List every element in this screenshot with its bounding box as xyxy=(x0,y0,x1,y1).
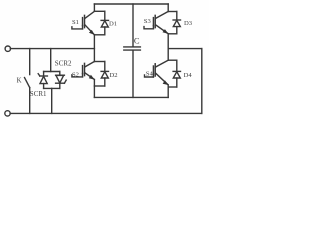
wire D4 anode jog xyxy=(168,86,177,88)
svg-text:S3: S3 xyxy=(144,18,152,25)
diode D4 xyxy=(173,60,180,87)
transistor S3 (IGBT top-right) xyxy=(144,12,168,34)
wire S1 collector jog xyxy=(94,10,104,12)
wire SCR branch input xyxy=(50,49,52,72)
wire SCR bottom bus xyxy=(44,87,60,89)
wire SCR top bus xyxy=(44,71,60,73)
wire right output horizontal xyxy=(168,48,202,50)
wire bridge bottom rail xyxy=(94,96,168,98)
transistor S4 (IGBT bottom-right) xyxy=(145,60,169,85)
wire top input bus xyxy=(10,48,94,50)
diode D1 xyxy=(101,11,108,35)
wire S3 collector jog xyxy=(168,11,177,13)
thyristor SCR2 (right, cathode down) xyxy=(56,72,67,89)
diode D2 xyxy=(101,62,108,87)
svg-text:S1: S1 xyxy=(72,19,79,26)
wire S4 collector jog xyxy=(168,59,177,61)
svg-text:D4: D4 xyxy=(184,72,193,79)
terminal J2 (bottom-left input) xyxy=(5,111,10,116)
wire SCR branch output xyxy=(51,88,53,113)
diode D3 xyxy=(173,12,180,34)
svg-text:D1: D1 xyxy=(109,21,117,28)
wire bridge top rail xyxy=(94,3,168,5)
capacitor C xyxy=(124,4,141,97)
node: left leg vertical segments xyxy=(93,4,95,11)
svg-text:C: C xyxy=(134,36,140,46)
transistor S1 (IGBT top-left) xyxy=(72,11,95,35)
svg-text:K: K xyxy=(17,78,22,85)
svg-text:S4: S4 xyxy=(146,71,154,78)
wire D1 anode jog xyxy=(94,34,104,36)
node: right leg vertical segments xyxy=(167,4,169,12)
svg-text:D3: D3 xyxy=(184,20,193,27)
svg-text:S2: S2 xyxy=(72,72,79,79)
transistor S2 (IGBT bottom-left) xyxy=(72,62,95,80)
switch K blade xyxy=(25,78,30,88)
wire bottom return bus xyxy=(10,112,202,114)
svg-text:SCR2: SCR2 xyxy=(55,59,72,67)
wire S2 collector jog xyxy=(94,61,104,63)
wire right output vertical xyxy=(201,49,203,114)
svg-text:SCR1: SCR1 xyxy=(30,90,47,98)
terminal J1 (top-left input) xyxy=(5,46,10,51)
wire D2 anode jog xyxy=(94,85,104,87)
wire switch K bottom lead xyxy=(29,88,31,114)
svg-text:D2: D2 xyxy=(110,72,118,79)
thyristor SCR1 (left, cathode up) xyxy=(38,72,47,89)
wire switch K top lead xyxy=(29,49,31,75)
wire D3 anode jog xyxy=(168,33,177,35)
